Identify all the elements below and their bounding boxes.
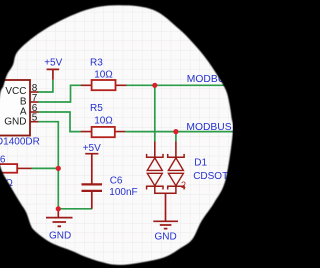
right branch bottom diode triangle (168, 173, 183, 185)
wire pin6 to R5 (38, 112, 81, 132)
resistor R5 (81, 103, 126, 137)
svg-text:R6: R6 (0, 155, 6, 166)
right branch top zener cathode (168, 154, 184, 157)
wire R3 to MODBUS_A (126, 84, 226, 86)
wire pin5 GND vertical (38, 122, 58, 209)
svg-text:VCC: VCC (5, 86, 26, 97)
diode D1 TVS array (147, 142, 275, 194)
junction on MODBUS_B (173, 129, 178, 134)
junction on MODBUS_A (152, 83, 157, 88)
svg-text:100nF: 100nF (109, 187, 137, 198)
ground symbol left (46, 209, 73, 242)
IC U1 RS-485 transceiver THVD1400DR body (left-clipped) (0, 80, 30, 136)
right branch top diode triangle (168, 158, 183, 171)
svg-text:D1: D1 (194, 158, 207, 169)
pin 7 stub (31, 101, 39, 103)
wire junction2 to C6 (58, 208, 92, 210)
svg-text:GND: GND (155, 231, 177, 242)
power +5V port above C6 (83, 143, 101, 184)
capacitor C6 (82, 176, 138, 209)
wire R5 to MODBUS_B (125, 131, 233, 133)
svg-text:+5V: +5V (83, 143, 101, 154)
D1 pin 1 lead (left) (154, 142, 156, 158)
svg-text:R5: R5 (90, 103, 103, 114)
D1 pin 3 lead (right) (175, 142, 177, 158)
pin 5 stub (31, 121, 39, 123)
resistor R3 (81, 58, 127, 91)
wire pin7 to R3 (38, 85, 81, 102)
diode bottom joining wire (155, 186, 176, 193)
svg-text:GND: GND (4, 116, 26, 127)
wire MODBUS_A branch down to D1 (154, 85, 156, 141)
svg-text:10Ω: 10Ω (94, 69, 113, 80)
left branch top zener cathode (147, 154, 163, 157)
resistor R6 (left-clipped) (0, 155, 32, 189)
left branch top diode triangle (147, 158, 162, 171)
left branch bottom diode triangle (147, 173, 162, 185)
black vignette mask (0, 0, 253, 268)
junction R6/GND net (56, 166, 61, 171)
svg-text:+5V: +5V (44, 58, 62, 69)
ground symbol right (153, 193, 178, 242)
wire R6 to GND node (32, 167, 59, 169)
left branch bottom zener cathode (147, 186, 163, 189)
svg-text:MODBUS_B: MODBUS_B (186, 122, 233, 133)
schematic background (0, 0, 233, 268)
junction GND/C6 (56, 206, 61, 211)
svg-text:R3: R3 (90, 58, 103, 69)
wire pin8 to +5V (38, 80, 53, 92)
svg-text:10Ω: 10Ω (94, 115, 113, 126)
pin 6 stub (31, 111, 39, 113)
wire MODBUS_B branch down to D1 (175, 132, 177, 142)
svg-text:THVD1400DR: THVD1400DR (0, 137, 40, 148)
power +5V port top (44, 58, 62, 80)
svg-text:2: 2 (181, 180, 186, 190)
pin 8 stub (31, 91, 39, 93)
svg-text:C6: C6 (110, 176, 123, 187)
right branch bottom zener cathode (168, 186, 184, 189)
svg-text:GND: GND (49, 231, 71, 242)
